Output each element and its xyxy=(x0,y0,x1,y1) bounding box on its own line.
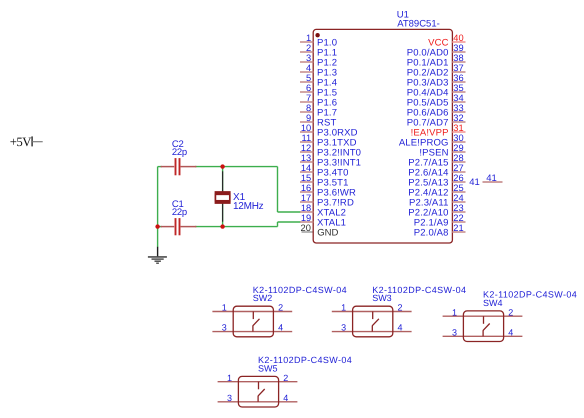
pin 24 P2.3/A11 xyxy=(409,193,465,209)
pin 11 P3.1TXD xyxy=(300,133,357,149)
pin 18 XTAL2 xyxy=(300,203,346,219)
wire XTAL1 riser xyxy=(277,222,279,227)
svg-text:10: 10 xyxy=(301,123,311,133)
svg-text:17: 17 xyxy=(301,193,311,203)
SW5 lever xyxy=(258,382,265,402)
pin 6 P1.5 xyxy=(300,83,337,99)
pin 19 XTAL1 xyxy=(300,213,346,229)
svg-text:1: 1 xyxy=(222,303,227,313)
pin 13 P3.3!INT1 xyxy=(300,153,361,169)
pin 1 P1.0 xyxy=(300,33,337,49)
svg-text:31: 31 xyxy=(453,123,463,133)
pin 30 ALE!PROG xyxy=(399,133,466,149)
pin 21 P2.0/A8 xyxy=(414,223,466,239)
pin 20 GND xyxy=(301,223,339,239)
pin 2 P1.1 xyxy=(300,43,337,59)
svg-text:11: 11 xyxy=(302,133,312,143)
svg-text:36: 36 xyxy=(453,73,463,83)
junction bottom wire / crystal xyxy=(220,224,224,228)
junction top wire / crystal xyxy=(220,164,224,168)
switch SW4 K2-1102DP-C4SW-04 xyxy=(483,290,577,308)
SW3 lever xyxy=(372,312,379,332)
SW5 body xyxy=(238,376,278,407)
svg-text:4: 4 xyxy=(508,327,513,337)
pin 25 P2.4/A12 xyxy=(408,183,465,199)
svg-text:3: 3 xyxy=(222,323,227,333)
pin 31 !EA!VPP xyxy=(411,123,466,139)
svg-text:25: 25 xyxy=(453,183,463,193)
svg-text:33: 33 xyxy=(453,103,463,113)
power terminal +5V xyxy=(10,135,43,149)
wire XTAL2 to pin 18 xyxy=(278,211,301,213)
pin 40 VCC xyxy=(428,33,465,49)
svg-text:18: 18 xyxy=(301,203,311,213)
pin 10 P3.0RXD xyxy=(300,123,358,139)
svg-text:SW2: SW2 xyxy=(253,293,273,303)
pin 41 floating xyxy=(469,173,502,188)
pin 39 P0.0/AD0 xyxy=(407,43,466,59)
pin 28 P2.7/A15 xyxy=(408,153,465,169)
svg-text:41: 41 xyxy=(486,173,497,184)
wire crystal branch xyxy=(222,167,224,227)
wire top (C2/XTAL2 net) xyxy=(158,166,162,168)
SW4 pin numbers xyxy=(452,307,513,337)
op-amp U1 body (AT89C51 MCU) xyxy=(313,29,452,243)
svg-text:37: 37 xyxy=(453,63,463,73)
pin 22 P2.1/A9 xyxy=(414,213,466,229)
pin 23 P2.2/A10 xyxy=(408,203,465,219)
svg-text:SW5: SW5 xyxy=(258,363,278,373)
svg-text:39: 39 xyxy=(453,43,463,53)
svg-text:32: 32 xyxy=(453,113,463,123)
pin 32 P0.7/AD7 xyxy=(407,113,466,129)
pin 29 !PSEN xyxy=(419,143,465,159)
svg-text:23: 23 xyxy=(453,203,463,213)
svg-text:38: 38 xyxy=(453,53,463,63)
wire to ground xyxy=(157,227,159,248)
SW5 pin numbers xyxy=(227,373,288,403)
svg-text:3: 3 xyxy=(227,393,232,403)
pin 35 P0.4/AD4 xyxy=(407,83,466,99)
svg-text:27: 27 xyxy=(453,163,463,173)
pin 8 P1.7 xyxy=(300,103,337,119)
wire left rail xyxy=(157,167,159,227)
svg-text:8: 8 xyxy=(306,103,311,113)
svg-text:26: 26 xyxy=(453,173,463,183)
svg-text:6: 6 xyxy=(306,83,311,93)
switch SW3 K2-1102DP-C4SW-04 xyxy=(372,285,466,303)
svg-text:3: 3 xyxy=(341,323,346,333)
svg-text:20: 20 xyxy=(301,223,311,233)
svg-text:GND: GND xyxy=(317,228,338,239)
svg-text:40: 40 xyxy=(453,33,463,43)
pin 34 P0.5/AD5 xyxy=(407,93,466,109)
pin 12 P3.2!INT0 xyxy=(300,143,361,159)
pin 4 P1.3 xyxy=(300,63,337,79)
pin 37 P0.2/AD2 xyxy=(407,63,466,79)
svg-text:1: 1 xyxy=(227,373,232,383)
pin 16 P3.6!WR xyxy=(300,183,356,199)
svg-text:P2.0/A8: P2.0/A8 xyxy=(414,228,449,239)
svg-text:12MHz: 12MHz xyxy=(233,201,264,212)
pin 1 marker dot xyxy=(315,33,319,37)
svg-text:2: 2 xyxy=(278,303,283,313)
svg-text:2: 2 xyxy=(283,373,288,383)
pin 27 P2.6/A14 xyxy=(408,163,465,179)
pin 9 RST xyxy=(300,113,336,129)
SW3 pin numbers xyxy=(341,303,402,333)
SW5 pin 3-4 line xyxy=(218,401,298,403)
wire xyxy=(195,226,278,228)
svg-text:28: 28 xyxy=(453,153,463,163)
svg-text:2: 2 xyxy=(398,303,403,313)
pin 17 P3.7!RD xyxy=(300,193,354,209)
SW4 pin 3-4 line xyxy=(443,335,523,337)
svg-text:AT89C51-: AT89C51- xyxy=(397,19,440,30)
svg-text:1: 1 xyxy=(306,33,311,43)
wire XTAL2 vertical xyxy=(277,167,279,212)
capacitor C2 xyxy=(161,139,197,175)
svg-text:19: 19 xyxy=(301,213,311,223)
svg-text:12: 12 xyxy=(301,143,311,153)
svg-text:9: 9 xyxy=(306,113,311,123)
SW3 body xyxy=(353,306,393,337)
svg-text:5: 5 xyxy=(306,73,311,83)
svg-text:22: 22 xyxy=(453,213,463,223)
SW2 body xyxy=(233,306,273,337)
switch SW5 K2-1102DP-C4SW-04 xyxy=(258,355,352,373)
SW3 pin 1-2 line xyxy=(332,311,412,313)
switch SW2 K2-1102DP-C4SW-04 xyxy=(253,285,347,303)
pin 36 P0.3/AD3 xyxy=(407,73,466,89)
svg-text:SW3: SW3 xyxy=(372,293,392,303)
svg-text:14: 14 xyxy=(301,163,311,173)
crystal X1 12MHz xyxy=(215,171,264,221)
svg-text:24: 24 xyxy=(453,193,463,203)
svg-text:22p: 22p xyxy=(172,207,187,218)
pin 14 P3.4T0 xyxy=(300,163,349,179)
svg-text:4: 4 xyxy=(306,63,311,73)
SW4 pin 1-2 line xyxy=(443,315,523,317)
svg-text:1: 1 xyxy=(341,303,346,313)
svg-text:1: 1 xyxy=(452,307,457,317)
pin 33 P0.6/AD6 xyxy=(407,103,466,119)
SW2 pin numbers xyxy=(222,303,283,333)
wire xyxy=(195,166,278,168)
svg-text:16: 16 xyxy=(301,183,311,193)
svg-text:4: 4 xyxy=(278,323,283,333)
SW2 pin 3-4 line xyxy=(212,331,292,333)
svg-text:3: 3 xyxy=(452,327,457,337)
SW4 lever xyxy=(483,316,490,336)
pin 26 P2.5/A13 xyxy=(408,173,465,189)
pin 7 P1.6 xyxy=(300,93,337,109)
pin 15 P3.5T1 xyxy=(300,173,349,189)
svg-text:2: 2 xyxy=(508,307,513,317)
junction bottom wire / left rail xyxy=(155,224,159,228)
svg-text:35: 35 xyxy=(453,83,463,93)
svg-text:13: 13 xyxy=(301,153,311,163)
svg-text:30: 30 xyxy=(453,133,463,143)
SW4 body xyxy=(463,311,503,342)
pin 3 P1.2 xyxy=(300,53,337,69)
svg-text:+5V: +5V xyxy=(10,135,33,149)
svg-text:4: 4 xyxy=(283,393,288,403)
ground xyxy=(148,247,167,263)
wire bottom (C1/XTAL1 net) xyxy=(158,226,162,228)
svg-text:21: 21 xyxy=(453,223,463,233)
svg-text:2: 2 xyxy=(306,43,311,53)
svg-text:7: 7 xyxy=(306,93,311,103)
svg-text:34: 34 xyxy=(453,93,463,103)
svg-text:15: 15 xyxy=(301,173,311,183)
SW5 pin 1-2 line xyxy=(218,381,298,383)
svg-text:SW4: SW4 xyxy=(483,298,503,308)
svg-text:22p: 22p xyxy=(172,147,187,158)
pin 38 P0.1/AD1 xyxy=(407,53,466,69)
svg-text:29: 29 xyxy=(453,143,463,153)
wire XTAL1 to pin 19 xyxy=(278,221,301,223)
svg-text:4: 4 xyxy=(398,323,403,333)
SW3 pin 3-4 line xyxy=(332,331,412,333)
capacitor C1 xyxy=(161,199,197,235)
SW2 lever xyxy=(253,312,260,332)
SW2 pin 1-2 line xyxy=(212,311,292,313)
svg-text:41: 41 xyxy=(469,177,480,188)
svg-text:3: 3 xyxy=(306,53,311,63)
pin 5 P1.4 xyxy=(300,73,337,89)
